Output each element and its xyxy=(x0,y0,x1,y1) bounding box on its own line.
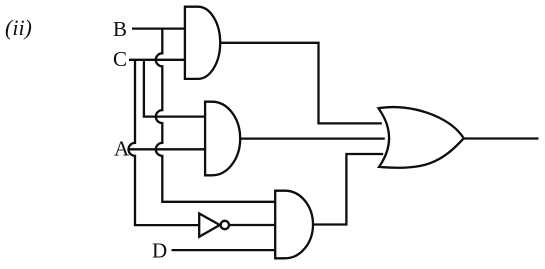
AND gate 3 (inputs B, NOT-C, D) xyxy=(275,191,313,259)
wire NOT output to AND3 middle input xyxy=(229,224,275,226)
NOT gate bubble xyxy=(221,221,229,229)
wire B to AND1 top input xyxy=(132,27,185,29)
wire B branch vertical with hops over C, AND2 line, A; to AND3 top input xyxy=(156,29,275,202)
NOT gate (input from C branch) xyxy=(199,214,220,237)
wire C to AND1 bottom input xyxy=(129,59,185,61)
svg-text:C: C xyxy=(113,47,127,71)
svg-text:D: D xyxy=(152,239,167,263)
wire C branch 1 vertical with hop over A; to NOT gate input xyxy=(129,60,200,225)
OR gate xyxy=(378,107,463,168)
svg-text:B: B xyxy=(113,17,127,41)
AND gate 2 (inputs C, A) xyxy=(205,102,240,176)
AND gate 1 (inputs B, C) xyxy=(185,7,220,79)
svg-text:A: A xyxy=(114,137,130,161)
wire OR output xyxy=(464,137,539,139)
wire AND1 output to OR top input xyxy=(220,43,382,124)
wire D to AND3 bottom input xyxy=(172,249,276,251)
wire AND3 output to OR bottom input xyxy=(313,154,383,225)
wire C branch 2 vertical to AND2 top input xyxy=(144,60,205,117)
svg-text:(ii): (ii) xyxy=(5,15,32,40)
wire A to AND2 bottom input xyxy=(130,148,206,150)
wire AND2 output to OR middle input xyxy=(240,137,385,139)
